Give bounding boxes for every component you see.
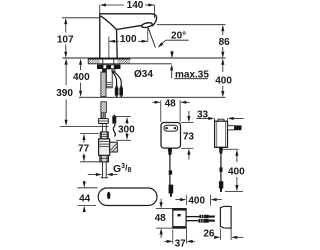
dim 100 line with arrows [109, 40, 119, 42]
dim 300 top extension [113, 116, 130, 118]
deck bottom line [88, 63, 172, 65]
dim 48 box arrows [160, 199, 162, 203]
aerator on spout [141, 22, 152, 28]
dim 33 extension lines [214, 118, 216, 121]
dim 26 arrows [214, 236, 217, 238]
dim 73 top extension [181, 122, 194, 124]
spout height reference line [157, 24, 226, 26]
svg-text:400: 400 [188, 195, 205, 206]
svg-text:73: 73 [183, 132, 195, 143]
control box body [173, 209, 186, 229]
dim 48 box bottom extension [156, 227, 173, 229]
shank tube below deck [106, 69, 112, 88]
dim max35 underline [174, 78, 208, 80]
psu side cable connector [219, 181, 223, 188]
power supply side body [218, 119, 224, 121]
dim 26 extensions [219, 229, 221, 241]
dim 44 top extension [78, 187, 98, 189]
angle 20 leader [166, 39, 189, 41]
dim 140 line with arrows [106, 4, 124, 6]
dim 400 right line [222, 65, 224, 73]
svg-text:400: 400 [228, 167, 245, 178]
svg-text:44: 44 [79, 194, 91, 205]
deck top line [63, 57, 226, 59]
dim 86 line [222, 31, 224, 35]
dim 400 bottom extensions [185, 195, 187, 205]
dim max35 up arrow [171, 67, 173, 79]
faucet back extension [99, 5, 101, 14]
dim 107 line [65, 24, 67, 33]
dim 390 line [65, 65, 67, 86]
power supply front body [161, 123, 181, 149]
water stream line [148, 28, 155, 48]
dim 77 bottom extension [80, 161, 100, 163]
plug pin holes [165, 127, 168, 129]
sensor window on plate [107, 192, 110, 199]
dim 400 left line [80, 65, 82, 71]
deck hatch right [110, 57, 141, 65]
solenoid coil [110, 142, 118, 152]
outlet pipe end line [101, 177, 109, 179]
svg-text:20°: 20° [171, 31, 186, 42]
dim 400 side bottom extension [225, 191, 243, 193]
dim 100 extension right [147, 28, 149, 41]
dim 37 extensions [172, 230, 174, 244]
control box side profile [220, 206, 231, 228]
svg-text:26: 26 [203, 228, 215, 239]
mounting nut part [103, 69, 116, 72]
faucet shank through deck [102, 58, 104, 64]
deck left edge [87, 58, 89, 64]
hose ferrule [100, 113, 106, 119]
dim 107 extension line [62, 17, 100, 19]
svg-text:77: 77 [78, 144, 90, 155]
thread size arrows [88, 174, 99, 176]
dim 100 extension center [108, 37, 110, 58]
psu front cable connector [169, 185, 174, 194]
svg-text:37: 37 [175, 238, 187, 249]
dim 400 bottom arrows [175, 199, 181, 201]
cover plate oval [98, 188, 157, 206]
control box label tick [177, 214, 180, 216]
dim 73 arrows [188, 111, 190, 117]
below-deck reference line [79, 96, 226, 98]
valve inlet pipe [101, 124, 103, 132]
cable connector B [120, 86, 122, 88]
svg-text:400: 400 [73, 72, 90, 83]
psu side cable [219, 147, 223, 153]
dim 400 side top extension [222, 148, 239, 150]
dim 33 arrows [197, 117, 209, 119]
svg-text:Ø34: Ø34 [134, 69, 153, 80]
cable connector A [116, 86, 118, 88]
solenoid cable connector [112, 116, 116, 124]
valve body [99, 139, 110, 156]
mounting bracket under deck [97, 64, 121, 69]
dim 140 extension line right [153, 5, 155, 18]
dim 300 line [126, 123, 128, 125]
svg-text:100: 100 [120, 34, 137, 45]
svg-text:140: 140 [127, 0, 144, 11]
valve top nut [100, 132, 108, 139]
plug face pill [164, 125, 178, 131]
outlet pipe G3/8 [101, 162, 103, 178]
sensor cable from faucet [112, 71, 117, 87]
braided hose lower section [101, 102, 107, 113]
svg-text:300: 300 [118, 125, 135, 136]
control box cable upper [186, 216, 199, 218]
svg-text:86: 86 [219, 37, 231, 48]
dim max35 down arrow [171, 51, 173, 57]
dim 400 side line [236, 156, 238, 163]
svg-text:48: 48 [165, 99, 177, 110]
control box cable lower [186, 220, 199, 222]
dim 48 psu extension lines [160, 100, 162, 122]
svg-text:48: 48 [155, 213, 167, 224]
svg-text:107: 107 [57, 34, 74, 45]
dim 44 arrows [83, 181, 85, 184]
hose nut [98, 119, 108, 124]
svg-text:390: 390 [56, 88, 73, 99]
braided hose upper section [101, 72, 106, 97]
dim 48 psu arrows [152, 101, 155, 103]
dim 77 line [83, 140, 85, 143]
valve inlet reference line [60, 126, 109, 128]
dim 44 bottom extension [78, 205, 97, 207]
valve outlet nut [100, 155, 109, 162]
deck hatch left [81, 57, 112, 65]
dim 73 bottom extension [181, 147, 194, 149]
dim 37 arrows [164, 240, 167, 242]
svg-text:400: 400 [215, 76, 232, 87]
plug pin side [228, 126, 235, 130]
power cable from faucet [113, 71, 121, 87]
dim 48 box top extension [156, 208, 173, 210]
stream direction arrow [171, 51, 173, 57]
psu front cable [168, 148, 172, 155]
dim 300 bottom extension [116, 139, 131, 141]
faucet body outline [100, 14, 157, 58]
solenoid cable curly [113, 124, 115, 137]
dim 77 top extension [80, 133, 99, 135]
